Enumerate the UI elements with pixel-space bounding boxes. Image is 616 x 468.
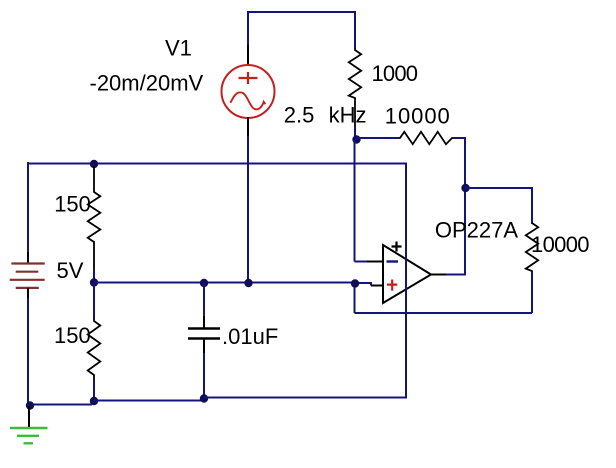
- junction node feedback: [461, 184, 469, 192]
- wire R1 bottom to node: [93, 270, 95, 283]
- wire R1 top lead: [93, 164, 95, 166]
- junction node top of R1: [90, 160, 98, 168]
- wire inverting input horizontal: [355, 261, 368, 263]
- svg-text:1000: 1000: [372, 61, 419, 86]
- svg-text:10000: 10000: [531, 232, 590, 257]
- pin cap top: [203, 316, 205, 328]
- junction node 5V divider: [90, 278, 98, 286]
- svg-text:kHz: kHz: [329, 103, 367, 128]
- svg-text:.01uF: .01uF: [222, 324, 278, 349]
- wire left rail upper: [27, 162, 29, 252]
- wire R2 top vertical: [354, 11, 356, 47]
- wire cap top lead: [203, 283, 205, 316]
- resistor R5 150 lower: [88, 318, 101, 380]
- wire R2 bottom to junction: [354, 126, 356, 140]
- op-amp inverting mark: [387, 260, 399, 262]
- wire R3 right to corner: [456, 137, 465, 139]
- wire output to feedback: [446, 274, 466, 276]
- pin op-amp output: [430, 274, 446, 276]
- pin op-amp inverting input: [367, 261, 384, 263]
- ground symbol: [10, 428, 48, 443]
- pin op-amp noninverting input: [371, 285, 384, 287]
- voltage source V1 circle: [222, 65, 275, 118]
- op-amp noninverting mark: [387, 280, 397, 291]
- wire noninverting input jog: [356, 283, 371, 286]
- wire R4 bottom vertical: [531, 272, 533, 313]
- junction node R5 bottom: [90, 397, 98, 405]
- wire divider node horizontal: [94, 282, 356, 284]
- junction node V1 bottom: [244, 279, 252, 287]
- pin cap bottom: [203, 340, 205, 354]
- wire middle horizontal rail: [28, 163, 406, 165]
- V1 plus sign: [239, 72, 258, 84]
- wire R5 bottom lead: [93, 380, 95, 401]
- wire cap bottom lead: [203, 353, 205, 399]
- wire feedback to R4 top: [465, 187, 532, 189]
- op-amp U1 triangle: [383, 245, 431, 303]
- wire feedback vertical: [464, 137, 466, 275]
- resistor R2 1000 vertical: [349, 47, 361, 126]
- pin V1 bottom lead: [247, 117, 249, 136]
- pin battery top lead: [27, 252, 29, 264]
- resistor R1 150 upper: [88, 166, 101, 270]
- resistor R4 10000 vertical: [526, 223, 538, 273]
- resistor R3 10000 horizontal: [396, 132, 458, 144]
- svg-text:5V: 5V: [57, 258, 84, 283]
- svg-text:V1: V1: [165, 36, 192, 61]
- junction node noninverting input: [351, 279, 359, 287]
- svg-text:150: 150: [54, 323, 91, 348]
- op-amp plus power mark: [392, 242, 402, 252]
- pin battery bottom lead: [27, 288, 29, 298]
- wire bottom middle horizontal: [94, 400, 204, 402]
- wire bottom left horizontal: [28, 404, 92, 406]
- pin ground stub: [28, 406, 30, 428]
- wire junction to R3: [356, 137, 396, 139]
- junction node cap top: [200, 279, 208, 287]
- junction node ground: [26, 401, 34, 409]
- wire R5 top lead: [93, 283, 95, 318]
- svg-text:2.5: 2.5: [284, 103, 315, 128]
- V1 sine symbol: [230, 92, 265, 109]
- junction node R2/R3: [352, 135, 360, 143]
- svg-text:10000: 10000: [385, 103, 450, 128]
- wire top horizontal V1 to R2: [248, 11, 355, 13]
- svg-text:OP227A: OP227A: [435, 218, 518, 243]
- wire vertical through op-amp: [405, 163, 407, 398]
- pin V1 top lead: [247, 45, 249, 66]
- wire inverting input vertical: [354, 140, 356, 262]
- wire R4 top vertical: [531, 187, 533, 224]
- wire V1 top vertical: [247, 11, 249, 45]
- wire noninverting junction down: [354, 284, 356, 314]
- wire bottom right horizontal: [355, 312, 533, 314]
- wire left rail lower: [27, 298, 29, 405]
- svg-text:-20m/20mV: -20m/20mV: [90, 71, 204, 96]
- svg-text:150: 150: [54, 192, 91, 217]
- junction node cap bottom: [200, 394, 208, 402]
- capacitor C1 plates: [188, 329, 220, 339]
- wire bottom right of cap horizontal: [204, 397, 407, 399]
- wire V1 bottom to node: [247, 136, 249, 284]
- battery B1 plates: [10, 264, 45, 288]
